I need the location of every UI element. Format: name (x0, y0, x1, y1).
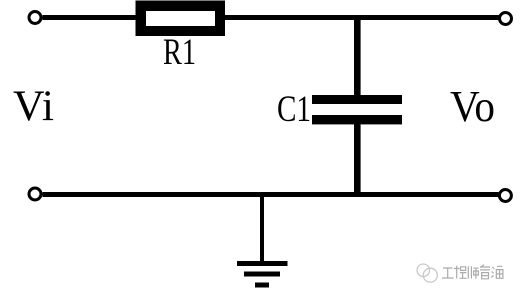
wire (C1 bottom plate to bottom rail) (354, 124, 361, 197)
svg-text:Vo: Vo (450, 82, 495, 131)
wire (R1 to top-right terminal) (225, 15, 499, 20)
程 (454, 266, 467, 279)
resistor R1 (136, 1, 226, 37)
wire (ground stem) (260, 195, 264, 262)
svg-text:C1: C1 (277, 89, 311, 130)
watermark text 工程师看海 (drawn strokes) (442, 265, 503, 279)
师 (468, 266, 478, 279)
terminal (output top) (500, 13, 512, 25)
工 (442, 268, 454, 278)
capacitor C1 (312, 95, 402, 124)
看 (480, 265, 490, 279)
wire (top-left terminal to R1) (43, 15, 137, 20)
terminal (input top) (29, 12, 41, 24)
watermark logo (two overlapping circles) (417, 264, 437, 282)
node junction top (wire from top rail down to C1) (354, 15, 361, 96)
svg-text:R1: R1 (163, 32, 196, 73)
ground (237, 261, 288, 288)
terminal (input bottom) (29, 188, 41, 200)
terminal (output bottom) (499, 190, 511, 202)
wire (bottom rail) (43, 192, 499, 197)
svg-text:Vi: Vi (13, 83, 54, 130)
海 (491, 266, 503, 278)
